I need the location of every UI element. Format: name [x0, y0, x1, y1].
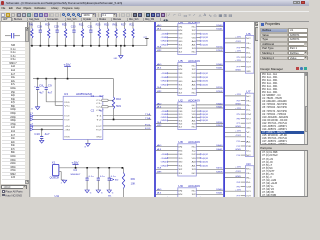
svg-text:G: G: [90, 193, 92, 195]
svg-text:C30: C30: [71, 26, 77, 28]
wire stub left: [168, 84, 178, 86]
node top rail port: [145, 38, 148, 40]
svg-text:GND: GND: [161, 162, 168, 164]
svg-text:S2: S2: [192, 69, 196, 71]
wire pin to bus right: [196, 126, 223, 128]
svg-text:VSS: VSS: [64, 137, 70, 139]
wire bus to pin: [225, 61, 245, 63]
wire stub left: [168, 165, 178, 167]
wire +5V rail: [33, 78, 114, 80]
svg-text:IN+: IN+: [246, 177, 251, 179]
resistor R21: [132, 22, 134, 28]
wire output net: [103, 128, 151, 130]
svg-text:A1: A1: [192, 84, 196, 87]
svg-text:4u7: 4u7: [99, 95, 104, 98]
svg-text:S3A0: S3A0: [216, 102, 222, 105]
wire bus to pin: [156, 104, 178, 106]
wire bus to pin: [156, 146, 178, 148]
svg-text:G: G: [31, 109, 33, 111]
svg-text:S5A1: S5A1: [216, 192, 222, 195]
svg-text:VDD: VDD: [64, 102, 70, 104]
svg-text:D1(4)S2: D1(4)S2: [201, 34, 208, 36]
wire stub: [241, 100, 246, 102]
wire stub left: [168, 119, 178, 121]
wire pin to bus right: [196, 68, 223, 70]
wire stub right: [196, 33, 200, 35]
wire stub left: [168, 204, 178, 206]
svg-text:+15VA: +15VA: [161, 153, 168, 156]
svg-text:S3S4: S3S4: [216, 122, 222, 124]
svg-text:D2: D2: [192, 73, 196, 75]
svg-text:-15VA: -15VA: [161, 157, 168, 160]
svg-text:A1: A1: [192, 43, 196, 46]
svg-text:GND: GND: [161, 85, 168, 87]
svg-text:4u7: 4u7: [99, 109, 104, 112]
svg-text:S1A1: S1A1: [216, 28, 222, 31]
svg-text:A0: A0: [192, 40, 196, 43]
svg-text:D1(4)S5: D1(4)S5: [201, 44, 208, 46]
wire pin to bus right: [196, 190, 223, 192]
svg-text:GND: GND: [235, 176, 242, 178]
wire bus to pin: [156, 172, 178, 174]
ground for C5: [85, 190, 89, 193]
capacitor C29: [56, 22, 58, 30]
svg-text:P5: P5: [237, 186, 240, 188]
svg-text:S2WR: S2WR: [216, 91, 223, 93]
svg-text:C10: C10: [34, 133, 40, 136]
svg-text:A0: A0: [192, 161, 196, 164]
wire stub: [241, 113, 246, 115]
wire bus to pin: [156, 29, 178, 31]
svg-text:U11: U11: [55, 195, 60, 197]
wire stub left: [168, 80, 178, 82]
wire bus to pin: [225, 109, 245, 111]
wire input net: [33, 118, 63, 120]
svg-text:R25: R25: [62, 25, 68, 27]
wire bus to pin: [156, 26, 178, 28]
svg-text:P5: P5: [237, 114, 240, 116]
node port +I: [30, 125, 33, 127]
svg-text:GND: GND: [114, 58, 118, 60]
wire stub left: [168, 36, 178, 38]
wire input net: [33, 128, 63, 130]
resistor R9: [122, 167, 124, 169]
svg-text:S1S4: S1S4: [216, 47, 222, 49]
wire stub right: [196, 200, 200, 202]
wire bus to pin: [225, 42, 245, 44]
svg-text:PW: PW: [246, 146, 251, 148]
svg-text:+15VA: +15VA: [161, 33, 168, 36]
node port B2: [111, 178, 114, 181]
svg-text:10K: 10K: [131, 184, 136, 186]
svg-text:D3(4)S5: D3(4)S5: [201, 120, 208, 122]
svg-text:FOUT: FOUT: [96, 126, 102, 128]
junction: [65, 45, 67, 47]
svg-text:A1: A1: [157, 148, 161, 151]
capacitor C7: [108, 167, 110, 169]
svg-text:P12: P12: [237, 146, 240, 148]
svg-text:S2: S2: [192, 194, 196, 196]
wire output net: [103, 118, 151, 120]
wire pin to bus right: [196, 172, 223, 174]
wire bus to pin: [156, 123, 178, 125]
svg-text:CM: CM: [246, 187, 251, 189]
svg-text:-15VA: -15VA: [161, 36, 168, 39]
ground for X1: [62, 180, 66, 183]
wire bus to pin: [225, 51, 245, 53]
wire input net: [33, 115, 63, 117]
wire bus to pin: [156, 88, 178, 90]
wire pin to bus right: [196, 123, 223, 125]
wire bus to pin: [225, 190, 245, 192]
wire stub left: [168, 157, 178, 159]
wire stub right: [196, 113, 200, 115]
wire stub: [241, 195, 246, 197]
wire stub left: [168, 44, 178, 46]
wire bus to pin: [225, 177, 245, 179]
svg-text:0.1u: 0.1u: [100, 176, 106, 178]
wire stub left: [168, 40, 178, 42]
svg-text:A1: A1: [157, 67, 161, 70]
resistor R11: [81, 22, 83, 28]
svg-text:S4A0: S4A0: [216, 144, 222, 147]
svg-text:P14: P14: [237, 155, 240, 157]
wire pin to bus right: [196, 215, 223, 217]
svg-text:GND: GND: [161, 44, 168, 46]
wire stub: [241, 66, 246, 68]
svg-text:R10: R10: [116, 99, 122, 101]
svg-text:D4(4)S2: D4(4)S2: [201, 154, 208, 156]
schematic sheet border: [29, 22, 31, 197]
svg-text:GND: GND: [235, 149, 242, 151]
svg-text:D3(4)S3: D3(4)S3: [201, 114, 208, 116]
svg-text:GND: GND: [161, 165, 168, 167]
capacitor C1: [102, 99, 109, 101]
wire stub left: [168, 33, 178, 35]
svg-text:S2A0: S2A0: [216, 63, 222, 66]
wire pin to bus right: [196, 92, 223, 94]
svg-text:S3: S3: [192, 48, 196, 50]
svg-text:GND: GND: [178, 81, 183, 83]
svg-text:S4: S4: [157, 122, 161, 124]
svg-text:D2: D2: [192, 154, 196, 156]
wire pin to bus right: [196, 88, 223, 90]
wire bus to pin: [225, 70, 245, 72]
ground for C10: [40, 140, 44, 143]
svg-text:S4S4: S4S4: [216, 168, 222, 170]
wire stub left: [168, 110, 178, 112]
svg-text:A1: A1: [157, 192, 161, 195]
wire stub left: [168, 113, 178, 115]
resistor R6: [31, 22, 33, 28]
wire stub: [241, 181, 246, 183]
svg-text:S4A1: S4A1: [216, 148, 222, 151]
svg-text:CM: CM: [246, 57, 251, 59]
svg-text:A1: A1: [157, 105, 161, 108]
ground under U3: [87, 140, 89, 144]
junction: [31, 45, 33, 47]
junction: [56, 45, 58, 47]
ground for C6: [96, 190, 100, 193]
junction: [124, 45, 126, 47]
junction: [48, 45, 50, 47]
svg-text:S1: S1: [178, 120, 182, 122]
wire stub left: [168, 200, 178, 202]
svg-text:D2(4)S3: D2(4)S3: [201, 77, 208, 79]
resistor R24: [48, 22, 50, 28]
svg-text:5M1: 5M1: [116, 106, 122, 108]
wire bus to pin: [156, 211, 178, 213]
svg-text:QG8CM: QG8CM: [50, 178, 59, 180]
wire stub right: [196, 80, 200, 82]
svg-text:+15VA: +15VA: [161, 110, 168, 113]
wire pin to bus right: [196, 211, 223, 213]
svg-text:FOUT: FOUT: [96, 129, 102, 131]
svg-text:TOUT: TOUT: [64, 119, 70, 121]
wire stub right: [196, 197, 200, 199]
svg-text:+I: +I: [30, 123, 34, 125]
resistor R26: [98, 22, 100, 28]
svg-text:S3: S3: [192, 169, 196, 171]
wire bus to pin: [156, 126, 178, 128]
svg-text:-I: -I: [30, 127, 34, 129]
wire osc gnd: [59, 171, 61, 173]
wire bus to pin: [225, 127, 245, 129]
wire stub right: [196, 116, 200, 118]
svg-text:G: G: [112, 193, 114, 195]
svg-text:R24: R24: [45, 25, 51, 27]
svg-text:D4(4)S5: D4(4)S5: [201, 165, 208, 167]
svg-text:T2: T2: [30, 117, 34, 119]
wire pin to bus right: [196, 64, 223, 66]
svg-text:VS+: VS+: [246, 173, 251, 175]
svg-text:A0: A0: [157, 188, 161, 191]
resistor R17: [124, 22, 126, 28]
wire stub right: [196, 110, 200, 112]
wire stub: [241, 56, 246, 58]
svg-text:S3A1: S3A1: [216, 105, 222, 108]
wire bus to pin: [225, 37, 245, 39]
svg-text:C1-: C1-: [96, 103, 102, 105]
svg-text:IN-: IN-: [246, 52, 251, 54]
svg-text:GND: GND: [235, 126, 242, 128]
svg-text:S3: S3: [192, 89, 196, 91]
junction: [132, 45, 134, 47]
svg-text:GND: GND: [161, 41, 168, 43]
svg-text:R16: R16: [104, 25, 110, 27]
wire top rail net: [30, 45, 147, 47]
svg-text:S2: S2: [192, 108, 196, 110]
svg-text:C4: C4: [73, 170, 77, 172]
svg-text:S1WR: S1WR: [216, 50, 223, 52]
svg-text:P3: P3: [237, 47, 240, 49]
wire bus to pin: [156, 107, 178, 109]
node port -I: [30, 128, 33, 130]
wire bus to pin: [156, 150, 178, 152]
wire stub right: [196, 84, 200, 86]
resistor R25: [65, 22, 67, 28]
capacitor C5: [86, 167, 88, 169]
svg-text:SM0807: SM0807: [70, 174, 81, 176]
svg-text:D4(4)S4: D4(4)S4: [201, 162, 208, 164]
svg-text:S2: S2: [178, 123, 182, 125]
svg-text:S2A1: S2A1: [216, 67, 222, 70]
junction: [113, 119, 115, 121]
svg-text:D2: D2: [192, 34, 196, 36]
wire stub right: [196, 161, 200, 163]
svg-text:D1(4)S3: D1(4)S3: [201, 37, 208, 39]
wire stub: [241, 118, 246, 120]
svg-text:R17: R17: [121, 25, 127, 27]
svg-text:S2: S2: [178, 89, 182, 91]
svg-text:R6: R6: [29, 25, 34, 27]
wire vertical bus right: [223, 22, 225, 197]
wire bus to pin: [225, 150, 245, 152]
wire stub left: [168, 153, 178, 155]
wire pin to bus right: [196, 29, 223, 31]
svg-text:S4WR: S4WR: [216, 172, 223, 174]
wire stub right: [196, 208, 200, 210]
svg-text:P7: P7: [237, 196, 240, 198]
svg-text:D2(4)S2: D2(4)S2: [201, 73, 208, 75]
svg-text:A1: A1: [192, 119, 196, 122]
svg-text:GND: GND: [96, 137, 102, 139]
svg-text:S4: S4: [157, 168, 161, 170]
svg-text:GND: GND: [235, 70, 242, 72]
svg-text:C28: C28: [37, 26, 43, 28]
svg-text:GND: GND: [161, 117, 168, 119]
wire bus to pin: [156, 68, 178, 70]
svg-text:A1: A1: [192, 165, 196, 168]
wire osc out: [59, 167, 124, 169]
svg-text:R9: R9: [131, 179, 136, 181]
wire output net: [103, 115, 151, 117]
wire to ground branch: [120, 45, 122, 47]
svg-text:A0: A0: [157, 102, 161, 105]
svg-text:P11: P11: [237, 141, 240, 143]
svg-text:+: +: [34, 86, 36, 89]
svg-text:A0: A0: [192, 80, 196, 83]
svg-text:VS+: VS+: [246, 43, 251, 45]
svg-text:+5V: +5V: [71, 160, 79, 164]
wire pin to bus right: [196, 104, 223, 106]
svg-text:CM: CM: [246, 114, 251, 116]
svg-text:S1: S1: [178, 44, 182, 46]
svg-text:GND: GND: [246, 71, 251, 73]
svg-text:G: G: [101, 193, 103, 195]
svg-text:IN+: IN+: [246, 105, 251, 107]
svg-text:S4: S4: [157, 47, 161, 49]
svg-text:S3: S3: [192, 123, 196, 125]
wire bus to pin: [156, 64, 178, 66]
wire to VC pin: [54, 78, 56, 80]
svg-text:A0: A0: [157, 24, 161, 27]
svg-text:P5: P5: [237, 57, 240, 59]
svg-text:GND: GND: [178, 41, 183, 43]
svg-text:GND: GND: [246, 128, 251, 130]
wire input net: [33, 125, 63, 127]
svg-text:4u7: 4u7: [45, 133, 51, 136]
wire stub left: [168, 116, 178, 118]
svg-text:S2: S2: [192, 150, 196, 152]
svg-text:GND: GND: [161, 120, 168, 122]
capacitor C9: [45, 78, 47, 80]
svg-text:-15VA: -15VA: [161, 113, 168, 116]
svg-text:2: 2: [61, 182, 63, 184]
wire stub right: [196, 153, 200, 155]
capacitor C6: [98, 167, 100, 169]
svg-text:T1: T1: [30, 113, 34, 115]
wire pin to bus right: [196, 146, 223, 148]
junction: [98, 45, 100, 47]
svg-text:D1(4)S4: D1(4)S4: [201, 41, 208, 43]
svg-text:B2: B2: [115, 180, 120, 182]
svg-text:R11: R11: [79, 25, 85, 27]
wire bus to pin: [225, 95, 245, 97]
capacitor C28: [39, 22, 41, 30]
node port T1: [30, 115, 33, 117]
svg-text:R21: R21: [129, 25, 135, 27]
svg-text:S2: S2: [178, 48, 182, 50]
svg-text:AL: AL: [246, 140, 251, 143]
svg-text:B1: B1: [108, 195, 112, 197]
wire C9 to VDD pin: [46, 101, 63, 103]
svg-text:0.1u: 0.1u: [89, 176, 95, 178]
wire bus to pin: [156, 215, 178, 217]
wire pin to bus right: [196, 150, 223, 152]
svg-text:U3: U3: [64, 92, 69, 96]
wire bus to pin: [225, 136, 245, 138]
svg-text:GND: GND: [235, 103, 242, 105]
junction: [40, 45, 42, 47]
wire stub right: [196, 36, 200, 38]
svg-text:P2: P2: [237, 100, 240, 102]
ground GND1: [119, 56, 123, 59]
wire pin to bus right: [196, 107, 223, 109]
wire pin to bus right: [196, 168, 223, 170]
wire bus to pin: [225, 104, 245, 106]
junction: [73, 45, 75, 47]
svg-text:+IN: +IN: [64, 126, 70, 128]
svg-text:C29: C29: [54, 26, 60, 28]
wire bus to pin: [225, 131, 245, 133]
svg-text:D2(4)S4: D2(4)S4: [201, 81, 208, 83]
svg-text:VS+: VS+: [246, 100, 251, 102]
svg-text:GND: GND: [178, 117, 183, 119]
capacitor C10: [41, 129, 43, 131]
svg-text:P4: P4: [237, 182, 240, 184]
wire stub right: [196, 72, 200, 74]
wire pin to bus right: [196, 47, 223, 49]
wire bus to pin: [225, 167, 245, 169]
wire stub right: [196, 157, 200, 159]
svg-text:D2: D2: [192, 111, 196, 113]
junction: [90, 45, 92, 47]
svg-text:GND: GND: [178, 162, 183, 164]
svg-text:A0: A0: [157, 144, 161, 147]
svg-text:-15VA: -15VA: [161, 76, 168, 79]
wire bus to pin: [225, 172, 245, 174]
svg-text:A0: A0: [157, 63, 161, 66]
svg-text:S2: S2: [178, 169, 182, 171]
wire bus to pin: [156, 92, 178, 94]
wire stub: [241, 186, 246, 188]
resistor R16: [107, 22, 109, 28]
resistor R10: [112, 97, 114, 109]
svg-text:IN+: IN+: [246, 48, 251, 50]
svg-text:D3(4)S2: D3(4)S2: [201, 111, 208, 113]
wire stub right: [196, 44, 200, 46]
